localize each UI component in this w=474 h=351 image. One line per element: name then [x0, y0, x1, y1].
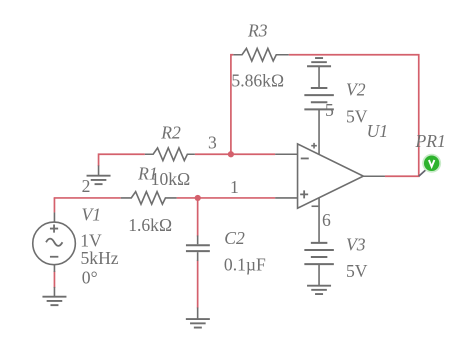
svg-text:PR1: PR1 — [415, 131, 446, 151]
svg-text:2: 2 — [82, 176, 91, 196]
svg-text:R3: R3 — [247, 21, 268, 41]
svg-text:1: 1 — [230, 177, 239, 197]
svg-text:5.86kΩ: 5.86kΩ — [231, 71, 284, 91]
svg-text:V1: V1 — [82, 205, 102, 225]
svg-text:0.1µF: 0.1µF — [224, 255, 266, 275]
svg-text:5V: 5V — [346, 261, 368, 281]
svg-text:5: 5 — [325, 100, 334, 120]
svg-text:U1: U1 — [367, 121, 389, 141]
svg-text:C2: C2 — [224, 228, 245, 248]
svg-text:V2: V2 — [346, 80, 366, 100]
svg-text:0°: 0° — [82, 267, 98, 287]
svg-text:R2: R2 — [160, 122, 181, 142]
svg-text:1.6kΩ: 1.6kΩ — [128, 215, 172, 235]
svg-text:R1: R1 — [137, 164, 158, 184]
svg-text:3: 3 — [208, 133, 217, 153]
svg-text:5V: 5V — [346, 107, 368, 127]
svg-text:6: 6 — [322, 210, 331, 230]
svg-text:V3: V3 — [346, 234, 366, 254]
svg-text:5kHz: 5kHz — [81, 248, 119, 268]
